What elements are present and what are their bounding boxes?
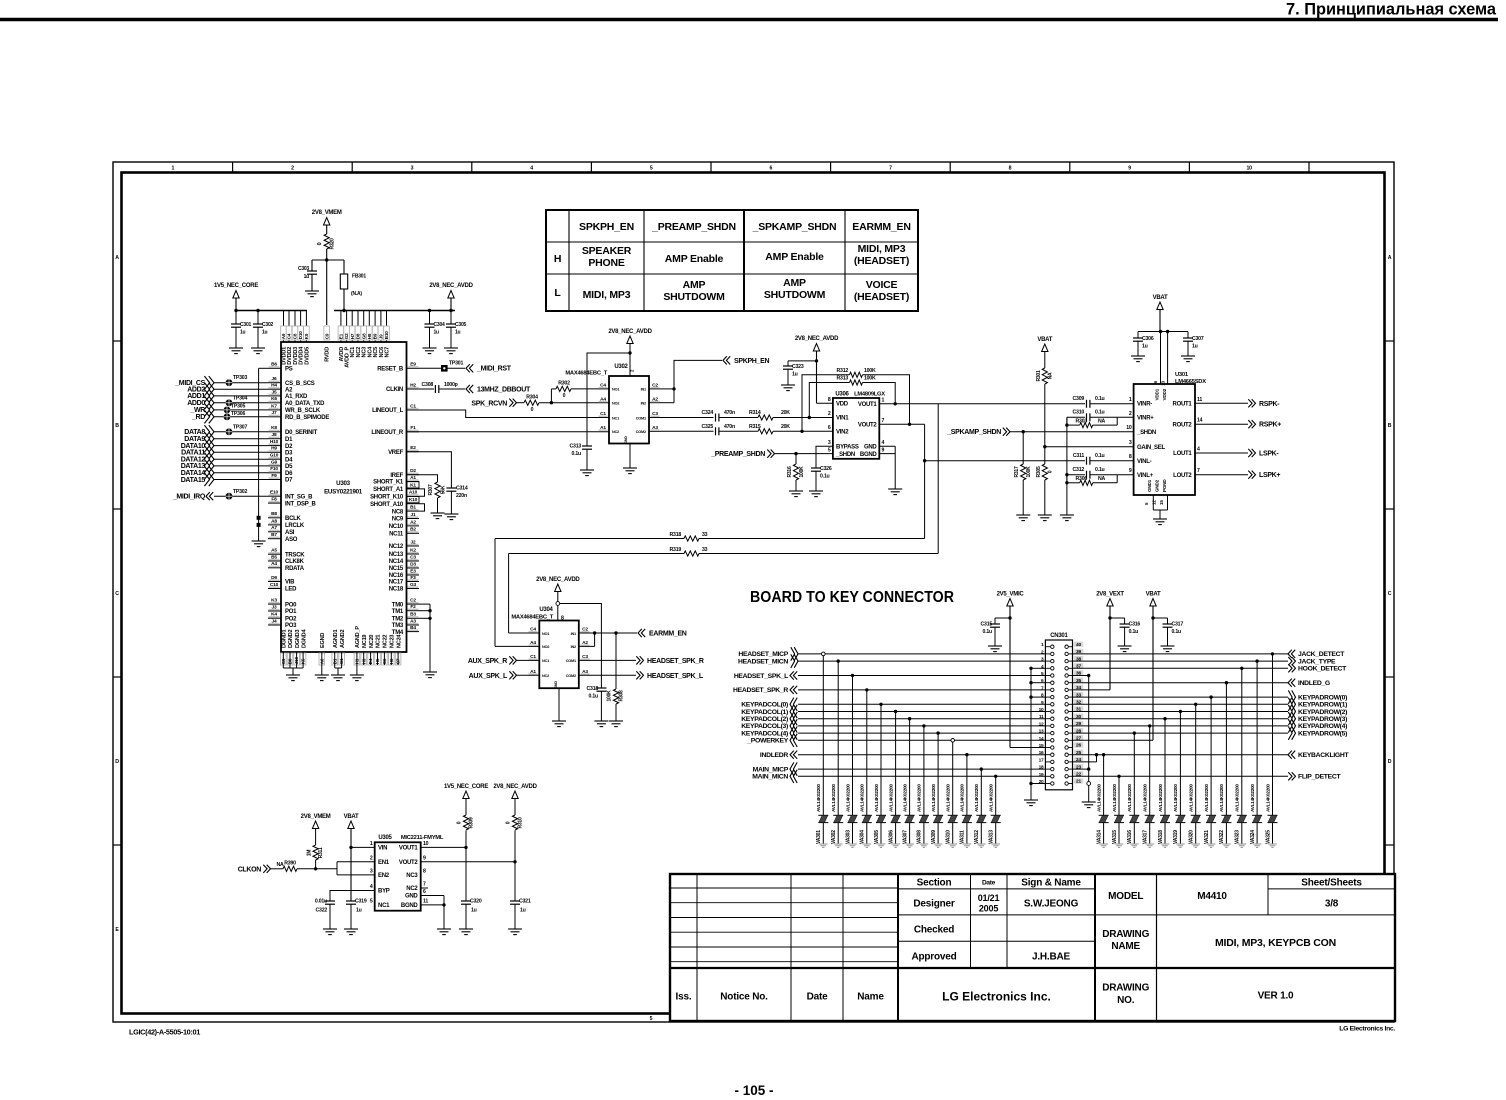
svg-text:DGND4: DGND4: [301, 629, 307, 648]
svg-text:1u: 1u: [471, 908, 477, 914]
svg-text:2: 2: [370, 856, 373, 862]
wire AVDD bus: [450, 298, 452, 311]
svg-text:F9: F9: [271, 473, 277, 479]
svg-text:C320: C320: [470, 899, 482, 905]
wire VOUT2 node: [421, 861, 515, 863]
svg-text:VINR+: VINR+: [1137, 416, 1154, 422]
svg-text:H10: H10: [270, 439, 279, 445]
svg-text:K9: K9: [304, 333, 309, 339]
svg-text:MAIN_MICN: MAIN_MICN: [752, 774, 788, 781]
ground C315: [988, 645, 1002, 647]
capacitor C305: [450, 311, 452, 325]
svg-text:C309: C309: [1073, 396, 1085, 402]
svg-text:GAIN_SEL: GAIN_SEL: [1137, 445, 1165, 451]
svg-text:13: 13: [1039, 729, 1044, 735]
svg-text:EUSY0221901: EUSY0221901: [324, 489, 363, 496]
svg-text:A5: A5: [271, 548, 277, 554]
svg-text:C10: C10: [270, 582, 279, 588]
wire MAIN_MICN to varistor: [995, 776, 997, 815]
ground C316: [1118, 645, 1132, 647]
ground VA302: [834, 843, 843, 845]
svg-text:KEYPADROW(2): KEYPADROW(2): [1298, 709, 1347, 716]
svg-text:H7: H7: [350, 333, 355, 339]
svg-text:AUX_SPK_R: AUX_SPK_R: [468, 658, 507, 665]
svg-text:VA307: VA307: [902, 830, 908, 844]
svg-text:TP303: TP303: [233, 375, 247, 381]
svg-text:F3: F3: [410, 575, 416, 581]
svg-text:R314: R314: [749, 410, 761, 416]
svg-text:VA314: VA314: [1096, 830, 1102, 844]
svg-text:D3: D3: [285, 451, 293, 457]
ground VA318: [1161, 843, 1170, 845]
ground C320: [459, 928, 473, 930]
svg-text:VDD2: VDD2: [1162, 388, 1167, 400]
svg-text:HEADSET_SPK_R: HEADSET_SPK_R: [647, 658, 704, 665]
svg-text:RESET_B: RESET_B: [377, 367, 404, 373]
ground VA312: [977, 843, 986, 845]
svg-text:NC14: NC14: [389, 559, 404, 565]
ground VA324: [1253, 843, 1262, 845]
svg-text:6: 6: [423, 889, 426, 895]
svg-text:D: D: [115, 759, 119, 765]
wire VBAT to VIN and C319: [350, 829, 352, 902]
svg-text:D5: D5: [285, 464, 293, 470]
ground VA321: [1207, 843, 1216, 845]
svg-text:B8: B8: [271, 511, 277, 517]
svg-text:KEYPADROW(1): KEYPADROW(1): [1298, 702, 1347, 709]
svg-text:DGND3: DGND3: [295, 630, 301, 648]
svg-text:C304: C304: [434, 322, 445, 328]
svg-text:DRAWING: DRAWING: [1102, 983, 1149, 994]
svg-text:(N.A): (N.A): [351, 291, 362, 297]
svg-text:TP307: TP307: [233, 425, 247, 431]
wire KEYPADCOL(2) to varistor: [909, 719, 911, 816]
svg-text:VBAT: VBAT: [1153, 295, 1168, 301]
power arrow VBAT U301: [1157, 302, 1163, 310]
svg-text:J8: J8: [272, 432, 277, 438]
power arrow VBAT U305: [348, 821, 354, 829]
svg-text:C3: C3: [582, 654, 588, 660]
svg-text:C314: C314: [456, 486, 468, 492]
frame row ticks right: [1385, 340, 1394, 342]
svg-text:A9: A9: [281, 333, 286, 339]
svg-text:H: H: [554, 253, 561, 265]
ground VA323: [1237, 843, 1246, 845]
svg-text:13MHZ_DBBOUT: 13MHZ_DBBOUT: [477, 386, 531, 393]
U304 GND to ground: [558, 688, 560, 721]
ground EGND: [315, 674, 329, 676]
svg-text:A: A: [1388, 255, 1392, 261]
svg-text:0: 0: [531, 407, 534, 413]
svg-text:H9: H9: [271, 446, 277, 452]
svg-text:VINL-: VINL-: [1137, 459, 1152, 465]
svg-text:VDD1: VDD1: [1155, 388, 1160, 400]
ground U304: [552, 720, 566, 722]
ground DGND: [286, 674, 300, 676]
wire MAIN_MICP to varistor: [980, 769, 982, 815]
ground VA316: [1130, 843, 1139, 845]
ferrite bead FB301: [343, 260, 345, 274]
svg-text:VIN: VIN: [378, 846, 387, 852]
svg-text:AVL14K02200: AVL14K02200: [974, 784, 979, 812]
wire KEYBACKLIGHT pin24 jog: [1096, 755, 1098, 762]
svg-text:Name: Name: [857, 992, 884, 1003]
svg-text:B4: B4: [410, 625, 416, 631]
svg-text:IN1: IN1: [641, 388, 646, 392]
svg-text:S.W.JEONG: S.W.JEONG: [1024, 899, 1079, 910]
svg-text:NC23: NC23: [390, 635, 396, 648]
svg-text:C307: C307: [1192, 336, 1204, 342]
svg-text:C316: C316: [1129, 622, 1141, 628]
svg-text:8: 8: [1009, 166, 1012, 172]
svg-text:SHORT_A1: SHORT_A1: [373, 487, 404, 493]
svg-text:TP302: TP302: [233, 489, 247, 495]
svg-text:C: C: [1388, 591, 1392, 597]
svg-text:KEYPADROW(3): KEYPADROW(3): [1298, 716, 1347, 723]
svg-text:MAX4684EBC_T: MAX4684EBC_T: [511, 615, 553, 621]
net _MIDI_RST: [466, 364, 470, 372]
resistor R315: [758, 429, 773, 434]
svg-text:3: 3: [1041, 657, 1044, 663]
svg-text:PO3: PO3: [285, 623, 297, 629]
svg-text:AVL14K02200: AVL14K02200: [1235, 784, 1240, 812]
capacitor C316: [1110, 617, 1125, 619]
capacitor C310 with R303 parallel: [1067, 416, 1085, 418]
test point TP304: [226, 399, 233, 406]
svg-text:NA: NA: [276, 862, 284, 868]
svg-text:INDLED_G: INDLED_G: [1298, 680, 1330, 687]
svg-text:R310: R310: [518, 817, 524, 828]
svg-text:A3: A3: [582, 669, 588, 675]
net RSPK-: [1195, 402, 1248, 404]
svg-text:0.1u: 0.1u: [983, 629, 993, 635]
svg-text:VOUT2: VOUT2: [858, 423, 878, 429]
svg-text:LG Electronics Inc.: LG Electronics Inc.: [942, 990, 1051, 1004]
connector CN301 pin circles: [1045, 646, 1050, 648]
svg-text:A2: A2: [410, 519, 416, 525]
svg-text:220n: 220n: [456, 493, 467, 499]
svg-text:JACK_TYPE: JACK_TYPE: [1298, 658, 1336, 665]
svg-text:NC2: NC2: [406, 886, 418, 892]
wire BYP to C322: [330, 891, 375, 902]
svg-text:R305: R305: [1036, 466, 1042, 477]
svg-text:R308: R308: [619, 690, 625, 701]
svg-text:100K: 100K: [607, 690, 613, 702]
svg-text:BOARD TO KEY CONNECTOR: BOARD TO KEY CONNECTOR: [750, 589, 954, 606]
power arrow 2V8_NEC_AVDD U304: [555, 584, 561, 592]
svg-text:BGND: BGND: [401, 903, 419, 909]
svg-text:9: 9: [882, 448, 885, 454]
capacitor C315: [995, 617, 1010, 619]
svg-text:AVL14K02200: AVL14K02200: [1158, 784, 1163, 812]
svg-text:NC19: NC19: [362, 635, 368, 648]
svg-text:C1: C1: [530, 654, 536, 660]
svg-text:VA315: VA315: [1112, 830, 1118, 844]
svg-text:5: 5: [828, 448, 831, 454]
test point TP302: [226, 493, 233, 500]
svg-text:1u: 1u: [792, 372, 798, 378]
connector left ground bus: [1030, 668, 1032, 800]
ground VA306: [891, 843, 900, 845]
svg-text:CLKON: CLKON: [238, 866, 262, 873]
sheet inner frame: [122, 173, 1385, 1014]
svg-text:AVL14K02200: AVL14K02200: [960, 784, 965, 812]
svg-text:D: D: [1388, 759, 1392, 765]
svg-text:NO2: NO2: [612, 402, 619, 406]
U302 V+ pin stub: [629, 353, 631, 376]
svg-text:C317: C317: [1172, 622, 1184, 628]
wire LINEOUT_L to U302: [407, 410, 610, 418]
svg-text:TM2: TM2: [392, 617, 404, 623]
svg-text:(HEADSET): (HEADSET): [854, 291, 909, 303]
svg-text:100K: 100K: [864, 368, 876, 374]
power arrow 1V5_NEC_CORE: [233, 291, 239, 299]
ground VA319: [1176, 843, 1185, 845]
svg-text:15: 15: [1039, 743, 1044, 749]
U303 right pin refs and stubs: [407, 367, 420, 369]
svg-text:4: 4: [1041, 664, 1044, 670]
svg-text:0.1u: 0.1u: [572, 451, 582, 457]
wire HEADSET_SPK_R to varistor: [866, 690, 868, 815]
net 13MHZ_DBBOUT: [466, 385, 470, 393]
svg-text:AVL14K02200: AVL14K02200: [931, 784, 936, 812]
power arrow 2V8_VMEM U305: [312, 821, 318, 829]
svg-text:R313: R313: [837, 376, 849, 382]
capacitor C307: [1187, 332, 1189, 339]
svg-text:Sheet/Sheets: Sheet/Sheets: [1301, 878, 1362, 889]
svg-text:NC13: NC13: [389, 552, 404, 558]
wire KEYBACKLIGHT to varistor: [1103, 755, 1105, 816]
ground C313: [580, 469, 594, 471]
svg-text:PO2: PO2: [285, 616, 297, 622]
svg-text:HEADSET_SPK_L: HEADSET_SPK_L: [734, 673, 788, 680]
svg-text:NC12: NC12: [389, 544, 404, 550]
power arrow 2V8_NEC_AVDD U306: [813, 344, 819, 352]
svg-text:9: 9: [1041, 700, 1044, 706]
svg-text:470n: 470n: [724, 424, 735, 430]
svg-text:5: 5: [650, 1016, 653, 1022]
svg-text:NC9: NC9: [392, 517, 404, 523]
svg-text:K7: K7: [271, 403, 277, 409]
svg-text:VER 1.0: VER 1.0: [1258, 991, 1294, 1002]
svg-text:IN2: IN2: [571, 645, 576, 649]
svg-text:FB301: FB301: [352, 274, 366, 280]
svg-text:RSPK+: RSPK+: [1259, 422, 1281, 429]
svg-text:RD_B_SPIMODE: RD_B_SPIMODE: [285, 415, 329, 421]
svg-text:C306: C306: [1142, 336, 1154, 342]
svg-text:Designer: Designer: [913, 899, 955, 910]
svg-text:INDLEDR: INDLEDR: [760, 752, 788, 759]
test point TP303: [226, 379, 233, 386]
svg-text:C326: C326: [820, 466, 832, 472]
svg-text:KEYPADROW(5): KEYPADROW(5): [1298, 730, 1347, 737]
wire COM2 to C325: [661, 430, 714, 432]
svg-text:_SPKAMP_SHDN: _SPKAMP_SHDN: [946, 429, 1001, 436]
wire INDLED_G to varistor: [1225, 683, 1227, 816]
net LSPK+: [1195, 474, 1248, 476]
svg-text:_SHDN: _SHDN: [835, 452, 855, 458]
svg-text:100K: 100K: [864, 376, 876, 382]
svg-text:U305: U305: [378, 835, 392, 841]
svg-text:4: 4: [530, 166, 533, 172]
svg-text:7: 7: [423, 882, 426, 888]
svg-text:SPEAKER: SPEAKER: [582, 245, 632, 257]
svg-text:SHUTDOWM: SHUTDOWM: [764, 289, 826, 301]
svg-text:IN1: IN1: [571, 632, 576, 636]
U303 left pin refs and stubs: [268, 367, 281, 369]
svg-text:NC22: NC22: [383, 635, 389, 648]
ground U305: [437, 928, 451, 930]
resistor R317: [1022, 432, 1024, 464]
svg-text:A10: A10: [409, 490, 418, 496]
wire U301 grounds: [1152, 495, 1154, 510]
svg-text:C2: C2: [582, 627, 588, 633]
svg-text:F10: F10: [270, 466, 278, 472]
svg-text:3: 3: [411, 166, 414, 172]
svg-text:EGND: EGND: [320, 633, 326, 648]
svg-text:13: 13: [1161, 380, 1166, 385]
svg-text:AMP Enable: AMP Enable: [765, 251, 824, 263]
svg-text:G8: G8: [361, 333, 366, 339]
svg-text:EN2: EN2: [378, 873, 390, 879]
svg-text:R303: R303: [1076, 419, 1088, 425]
U302 right pin refs: [649, 388, 661, 390]
svg-text:_SHDN: _SHDN: [1136, 430, 1156, 436]
svg-text:1u: 1u: [262, 330, 268, 336]
svg-text:2V8_NEC_AVDD: 2V8_NEC_AVDD: [608, 329, 652, 335]
svg-text:7: 7: [1197, 468, 1200, 474]
svg-text:LG Electronics Inc.: LG Electronics Inc.: [1339, 1026, 1395, 1033]
connector right ground bus: [1088, 676, 1090, 803]
wire EGND to ground: [321, 665, 323, 675]
svg-text:3: 3: [1129, 440, 1132, 446]
svg-text:AVL14K02200: AVL14K02200: [917, 784, 922, 812]
power arrow VBAT R301: [1042, 344, 1048, 352]
svg-text:VDD: VDD: [836, 401, 849, 407]
svg-text:12: 12: [1152, 500, 1157, 505]
svg-text:A1_RXD: A1_RXD: [285, 394, 308, 400]
svg-text:AVL14K02200: AVL14K02200: [888, 784, 893, 812]
ground PS/BCLK bus: [252, 540, 266, 542]
svg-text:2: 2: [291, 166, 294, 172]
svg-text:K2: K2: [410, 547, 416, 553]
svg-text:A8: A8: [271, 518, 277, 524]
svg-text:TP306: TP306: [231, 411, 245, 417]
svg-text:R390: R390: [284, 861, 296, 867]
svg-text:VA322: VA322: [1219, 830, 1225, 844]
sheet outer frame: [113, 162, 1394, 1022]
svg-text:C4: C4: [600, 383, 606, 389]
svg-text:A0_DATA_TXD: A0_DATA_TXD: [285, 401, 325, 407]
wire HEADSET_MICP to varistor: [822, 654, 824, 815]
svg-text:7: 7: [882, 418, 885, 424]
resistor R319 line: [509, 553, 684, 555]
wire KEYPADROW(2) to varistor: [1179, 712, 1181, 816]
svg-text:0.1u: 0.1u: [1095, 396, 1105, 402]
svg-text:C9: C9: [324, 333, 329, 339]
svg-text:10: 10: [1126, 425, 1132, 431]
wire AGND group to ground: [334, 665, 336, 668]
resistor R310: [514, 831, 516, 862]
ground C302: [251, 347, 265, 349]
svg-text:MIDI, MP3: MIDI, MP3: [858, 243, 906, 255]
svg-text:TRSCK: TRSCK: [285, 552, 305, 558]
svg-text:A1: A1: [600, 425, 606, 431]
svg-text:10: 10: [423, 841, 429, 847]
svg-text:PGND: PGND: [1162, 479, 1167, 492]
frame row ticks left: [113, 340, 122, 342]
resistor R316: [795, 454, 797, 464]
svg-text:B2: B2: [410, 527, 416, 533]
svg-text:11: 11: [423, 899, 428, 905]
svg-text:A2: A2: [582, 640, 588, 646]
resistor R306: [1067, 482, 1080, 484]
ground R316: [789, 490, 803, 492]
capacitor C320: [465, 847, 467, 901]
svg-text:PO1: PO1: [285, 609, 297, 615]
svg-text:1u: 1u: [240, 330, 246, 336]
svg-text:FLIP_DETECT: FLIP_DETECT: [1298, 774, 1341, 781]
svg-text:C: C: [115, 591, 119, 597]
ground VA303: [848, 843, 857, 845]
svg-text:VBAT: VBAT: [344, 814, 359, 820]
resistor R311: [315, 829, 317, 846]
title block middle dividers: [970, 874, 972, 968]
ground TM: [423, 671, 437, 673]
resistor R303: [1067, 424, 1080, 426]
test point TP305: [224, 407, 231, 414]
svg-text:56K: 56K: [441, 485, 447, 494]
U303 top pin ref boxes: [281, 326, 287, 340]
svg-text:5: 5: [1041, 671, 1044, 677]
svg-text:KEYPADROW(0): KEYPADROW(0): [1298, 694, 1347, 701]
svg-text:D8: D8: [356, 333, 361, 339]
wire HEADSET_SPK_L to varistor: [852, 676, 854, 816]
svg-text:J3: J3: [272, 604, 277, 610]
ground U306: [888, 488, 902, 490]
svg-text:J9: J9: [379, 334, 384, 339]
svg-text:15: 15: [1159, 500, 1164, 505]
capacitor C321: [514, 862, 516, 901]
svg-text:AGND1: AGND1: [333, 630, 339, 648]
svg-text:10: 10: [1247, 166, 1253, 172]
svg-text:TP301: TP301: [449, 361, 463, 367]
wire VINL- row to C311: [925, 460, 1085, 462]
svg-text:6: 6: [828, 425, 831, 431]
svg-text:01/21: 01/21: [978, 893, 1000, 903]
svg-text:2V5_VMIC: 2V5_VMIC: [997, 592, 1025, 598]
svg-text:(HEADSET): (HEADSET): [854, 255, 909, 267]
resistor R304: [517, 402, 525, 404]
capacitor C326: [811, 467, 821, 469]
svg-text:1: 1: [370, 841, 373, 847]
svg-text:NC21: NC21: [376, 635, 382, 648]
svg-text:C312: C312: [1073, 467, 1085, 473]
svg-text:U301: U301: [1175, 372, 1189, 378]
svg-text:LSPK+: LSPK+: [1259, 472, 1280, 479]
ground VA310: [948, 843, 957, 845]
svg-text:BGND: BGND: [860, 452, 878, 458]
capacitor C302: [257, 311, 259, 325]
U305 pin stubs NC: [421, 887, 428, 889]
svg-text:E3: E3: [410, 568, 416, 574]
resistor R314: [758, 415, 773, 420]
svg-text:0.01u: 0.01u: [315, 899, 327, 905]
logic table column lines: [568, 210, 570, 311]
resistor R390: [271, 868, 284, 870]
svg-text:D2: D2: [410, 468, 416, 474]
svg-text:1000p: 1000p: [444, 382, 458, 388]
